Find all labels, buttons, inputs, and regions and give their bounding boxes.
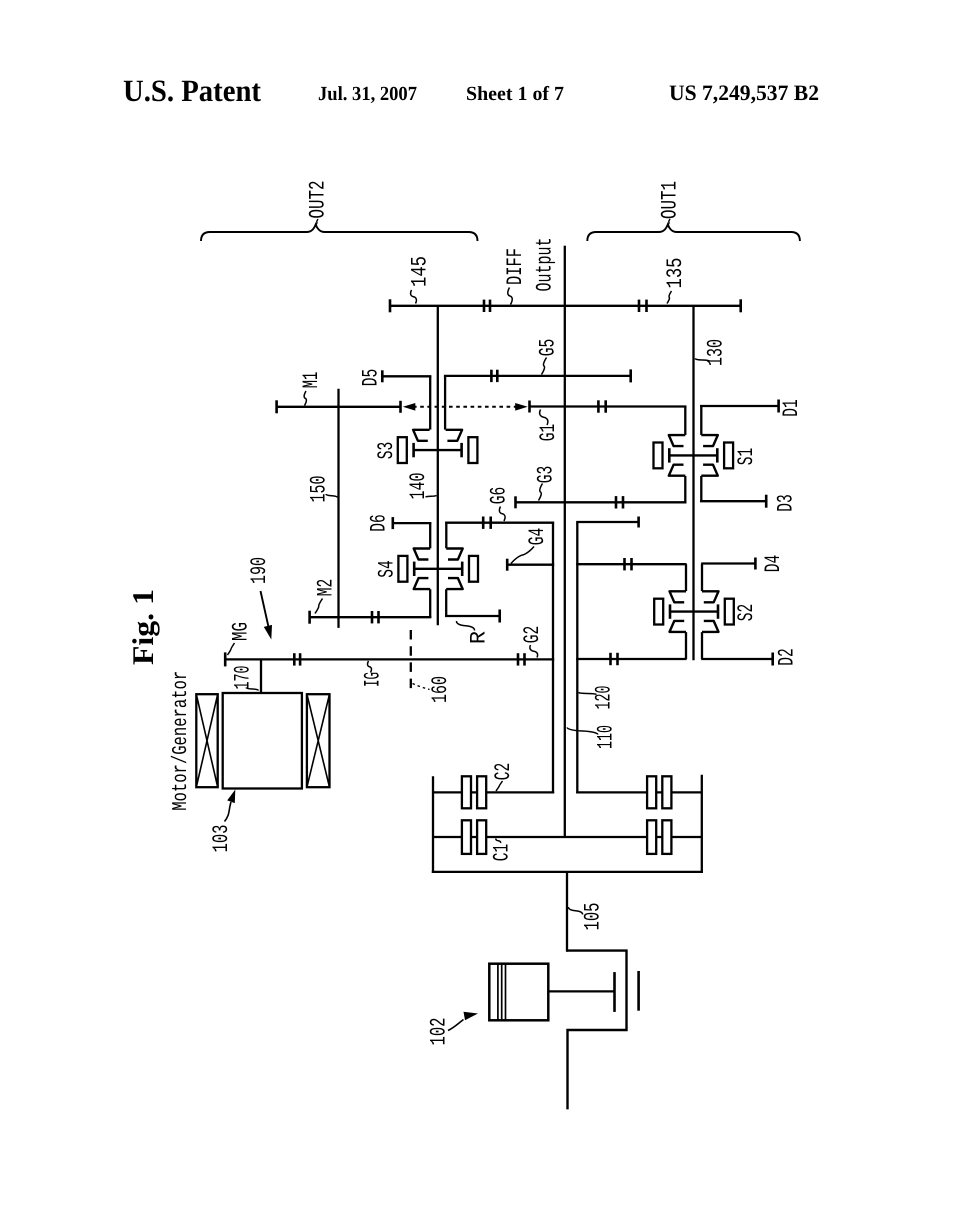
- svg-text:160: 160: [428, 676, 453, 703]
- label G1: [536, 410, 561, 442]
- engine piston: [489, 964, 548, 1021]
- svg-text:Jul. 31, 2007: Jul. 31, 2007: [318, 83, 417, 105]
- svg-text:Sheet 1 of 7: Sheet 1 of 7: [466, 83, 564, 105]
- gear line M2: [310, 589, 432, 623]
- dashed partition 160: [410, 630, 412, 691]
- label G6: [487, 487, 512, 521]
- gear line M1: [277, 400, 401, 413]
- label 160: [413, 676, 454, 703]
- engine 102 crankshaft outline: [567, 951, 627, 1110]
- gear stub on shaft 120: [576, 517, 638, 528]
- clutch C1 line: [433, 836, 702, 838]
- label 190: [247, 557, 272, 584]
- label 102 with arrow: [427, 1012, 479, 1046]
- label IG: [361, 661, 386, 687]
- gear line G5: [444, 369, 631, 429]
- brace OUT2: [201, 225, 478, 242]
- motor stator right: [307, 694, 330, 787]
- input gear line right segment: [576, 653, 686, 665]
- svg-text:D3: D3: [774, 494, 799, 512]
- label 120: [579, 686, 617, 710]
- label D2: [775, 648, 800, 666]
- engine crank web bars: [615, 971, 639, 1012]
- clutch housing drum: [432, 775, 703, 873]
- gear line D1: [700, 400, 779, 413]
- gear line G3: [516, 496, 687, 508]
- motor rotor 103: [223, 693, 302, 789]
- label 140: [406, 473, 437, 500]
- clutch C2 plates: [462, 776, 671, 808]
- output stub wire: [564, 246, 566, 306]
- header: date Jul. 31, 2007: [318, 83, 417, 105]
- label 170: [231, 666, 259, 691]
- label Motor/Generator: [170, 671, 193, 811]
- gear line G4 left: [507, 559, 554, 571]
- label M2: [314, 579, 339, 614]
- engine connecting rod: [548, 990, 614, 992]
- label MG: [228, 622, 254, 655]
- svg-text:D4: D4: [761, 555, 786, 573]
- label D6: [367, 514, 392, 532]
- label D5: [359, 369, 384, 387]
- synchronizer S1: [654, 406, 734, 502]
- label D1: [779, 399, 804, 417]
- svg-text:G4: G4: [525, 528, 550, 546]
- label 103 with arrow: [209, 790, 235, 853]
- header: patent number US 7,249,537 B2: [669, 80, 819, 105]
- label DIFF: [503, 248, 528, 305]
- label 135: [663, 258, 688, 304]
- svg-text:G1: G1: [536, 424, 561, 442]
- svg-text:D2: D2: [775, 648, 800, 666]
- svg-text:170: 170: [231, 666, 256, 690]
- gear line G6: [445, 517, 554, 549]
- svg-text:Fig. 1: Fig. 1: [127, 589, 160, 665]
- output shaft line 145/135: [390, 299, 741, 312]
- svg-text:DIFF: DIFF: [503, 248, 528, 285]
- svg-text:M1: M1: [299, 372, 324, 389]
- synchronizer S3: [398, 430, 478, 463]
- svg-text:S1: S1: [734, 448, 759, 466]
- label S2: [734, 604, 759, 622]
- label 110: [567, 725, 619, 749]
- label R: [456, 621, 491, 644]
- svg-text:S2: S2: [734, 604, 759, 622]
- hollow shaft 120 left wall: [552, 523, 554, 794]
- synchronizer S2: [654, 564, 734, 660]
- motor shaft stub 170: [260, 659, 262, 693]
- svg-text:M2: M2: [314, 579, 339, 597]
- countershaft 140: [437, 306, 439, 626]
- engine input shaft 105: [566, 872, 568, 952]
- svg-text:C1: C1: [490, 844, 515, 862]
- label D3: [774, 494, 799, 512]
- label OUT1: [658, 181, 683, 226]
- svg-text:110: 110: [594, 725, 619, 749]
- label 105: [568, 903, 605, 931]
- svg-text:R: R: [467, 631, 492, 644]
- label G2: [520, 626, 545, 658]
- figure title Fig. 1: [127, 589, 160, 665]
- hollow shaft 120 right wall: [576, 522, 578, 794]
- header: U.S. Patent: [123, 73, 262, 108]
- gear line D4: [701, 558, 755, 570]
- synchronizer S4: [398, 549, 478, 590]
- gear line D6: [393, 517, 432, 548]
- svg-text:D1: D1: [779, 399, 804, 417]
- svg-text:G5: G5: [536, 339, 561, 357]
- svg-text:190: 190: [247, 557, 272, 584]
- header: Sheet 1 of 7: [466, 83, 564, 105]
- dotted shift-coupling arrow M1-G1: [403, 403, 528, 411]
- svg-text:G2: G2: [520, 626, 545, 644]
- svg-text:S4: S4: [375, 560, 400, 578]
- svg-text:103: 103: [209, 825, 234, 853]
- svg-text:U.S. Patent: U.S. Patent: [123, 73, 262, 108]
- gear line G4 right: [576, 558, 686, 570]
- svg-text:OUT2: OUT2: [306, 181, 331, 219]
- pointer arrow 190: [261, 591, 273, 640]
- label 150: [307, 476, 338, 503]
- clutch C2 line right: [576, 791, 702, 793]
- label 145: [408, 256, 433, 304]
- gear line D3: [700, 495, 766, 508]
- label S1: [734, 448, 759, 466]
- svg-text:130: 130: [704, 339, 729, 366]
- svg-text:145: 145: [408, 256, 433, 287]
- svg-text:IG: IG: [361, 672, 386, 687]
- gear line D5: [382, 370, 431, 429]
- svg-text:Motor/Generator: Motor/Generator: [170, 671, 193, 811]
- label C2: [491, 763, 516, 791]
- svg-text:Output: Output: [532, 238, 557, 292]
- label G5: [536, 339, 561, 375]
- clutch C1 plates: [462, 820, 671, 854]
- svg-text:135: 135: [663, 258, 688, 289]
- svg-text:D5: D5: [359, 369, 384, 387]
- label S3: [374, 442, 399, 460]
- gear line G1: [530, 400, 687, 412]
- svg-text:G6: G6: [487, 487, 512, 505]
- label G4: [511, 528, 550, 564]
- input gear line IG: [225, 652, 554, 666]
- coaxial input/output shaft 110: [564, 306, 566, 837]
- label S4: [375, 560, 400, 578]
- motor stator left: [196, 694, 217, 787]
- svg-text:150: 150: [307, 476, 332, 503]
- label G3: [534, 466, 559, 501]
- gear line D2: [701, 653, 773, 666]
- gear line R: [445, 589, 500, 622]
- countershaft 150: [337, 389, 339, 628]
- svg-text:105: 105: [581, 903, 606, 931]
- label OUT2: [306, 181, 331, 226]
- svg-text:US 7,249,537 B2: US 7,249,537 B2: [669, 80, 819, 105]
- label Output: [532, 238, 557, 292]
- clutch C2 line left: [433, 791, 554, 793]
- label 130: [695, 339, 729, 366]
- svg-text:D6: D6: [367, 514, 392, 532]
- svg-text:S3: S3: [374, 442, 399, 460]
- label D4: [761, 555, 786, 573]
- svg-text:OUT1: OUT1: [658, 181, 683, 219]
- brace OUT1: [587, 225, 800, 242]
- countershaft 130: [692, 306, 694, 660]
- svg-text:MG: MG: [229, 622, 254, 641]
- svg-text:120: 120: [592, 686, 617, 710]
- svg-text:102: 102: [427, 1018, 452, 1046]
- label C1: [490, 839, 515, 862]
- label M1: [299, 372, 324, 406]
- svg-text:G3: G3: [534, 466, 559, 484]
- svg-text:140: 140: [406, 473, 431, 500]
- svg-text:C2: C2: [491, 763, 516, 781]
